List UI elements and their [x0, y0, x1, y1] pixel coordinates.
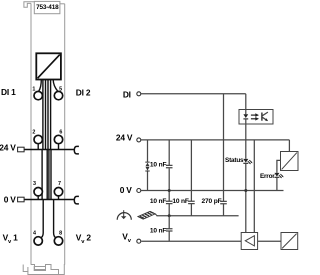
wire to terminal 4: [40, 200, 44, 239]
module body outline right edge: [64, 4, 66, 265]
status wire from optocoupler: [245, 124, 247, 159]
wire TVS column: [147, 140, 149, 191]
DIN rail line: [28, 272, 59, 275]
LED Error: [274, 173, 283, 178]
node FE junction: [168, 214, 171, 217]
svg-text:10 nF: 10 nF: [150, 227, 167, 234]
capacitor C5 column Vv to FE: [168, 216, 170, 241]
terminal 8 circle: [54, 237, 62, 245]
module body outline left edge: [30, 3, 32, 264]
optocoupler light arrows: [251, 113, 259, 120]
svg-text:1: 1: [32, 87, 35, 93]
24V rail drop to DC/DC: [288, 140, 290, 152]
wire to terminal 8: [54, 200, 57, 239]
capacitor C3 column from 24V: [190, 140, 192, 216]
amplifier box A1: [241, 233, 257, 250]
capacitor C1 10nF plates: [166, 165, 173, 167]
0V terminal circle: [137, 189, 141, 193]
svg-text:24 V: 24 V: [116, 133, 133, 143]
svg-text:6: 6: [59, 129, 62, 135]
svg-text:10 nF: 10 nF: [172, 198, 189, 205]
optocoupler LED: [243, 110, 248, 125]
wire capacitor C1 column upper: [168, 140, 170, 191]
optocoupler U1 box: [239, 110, 273, 125]
module top right edge line: [60, 3, 65, 5]
svg-text:10 nF: 10 nF: [150, 161, 167, 168]
node status-0V junction: [244, 189, 247, 192]
stub terminal 7: [58, 196, 60, 200]
terminal 7 circle: [54, 188, 62, 196]
svg-text:Status: Status: [225, 157, 244, 164]
24V rail left: [24, 149, 74, 151]
wire internal bus d: [50, 80, 52, 200]
wire 270pF column from DI: [223, 94, 225, 202]
wire internal bus b: [46, 80, 48, 200]
svg-text:DI 1: DI 1: [1, 87, 16, 97]
antenna earth symbol: [117, 210, 131, 220]
svg-text:DI 2: DI 2: [76, 87, 91, 97]
DC/DC converter box bottom: [281, 233, 298, 250]
Vv terminal circle: [137, 239, 141, 243]
svg-text:DI: DI: [123, 89, 131, 99]
24V clamp fork symbol: [74, 146, 79, 154]
svg-text:3: 3: [33, 181, 36, 187]
svg-text:5: 5: [59, 87, 62, 93]
status wire to 0V and amplifier: [245, 164, 247, 233]
wire internal bus a: [41, 80, 44, 200]
DI wire: [141, 93, 246, 95]
Vv rail: [141, 240, 241, 242]
svg-text:270 pF: 270 pF: [202, 198, 222, 205]
LED Status: [243, 159, 252, 164]
label box 753-418: [34, 1, 60, 13]
suppressor diode D1: [145, 162, 149, 171]
terminal 1 circle: [34, 91, 42, 99]
24V terminal circle: [137, 138, 141, 142]
node 0V-C2 junction: [168, 189, 171, 192]
functional earth line: [157, 215, 239, 217]
0V rail left: [24, 199, 74, 201]
error tap wire: [277, 160, 281, 173]
terminal 6 circle: [54, 135, 62, 143]
24V wire-entry square symbol: [18, 147, 25, 152]
terminal 5 circle: [54, 91, 62, 99]
wire 270pF column lower: [223, 204, 225, 216]
svg-text:7: 7: [58, 181, 61, 187]
0V wire-entry square symbol: [18, 197, 25, 202]
svg-text:Error: Error: [260, 173, 275, 180]
stub terminal 2: [37, 144, 39, 150]
module bottom foot profile: [31, 265, 65, 275]
wire leg to terminal 5: [53, 80, 58, 92]
wire 24V to amplifier: [253, 140, 255, 233]
DIN rail cross-section: [34, 267, 45, 271]
wire internal bus c: [47, 80, 50, 200]
wire amplifier to DC/DC bottom: [258, 240, 281, 242]
error wire to 0V: [276, 178, 278, 191]
svg-text:8: 8: [59, 231, 62, 237]
capacitor C2 10nF plates: [166, 201, 173, 203]
DC/DC converter box top: [281, 152, 299, 171]
svg-text:2: 2: [32, 129, 35, 135]
capacitor C4 270pF plates: [220, 201, 227, 203]
0V clamp fork symbol: [74, 196, 79, 204]
terminal 3 circle: [34, 188, 42, 196]
24V rail: [141, 139, 290, 141]
capacitor C3 10nF plates: [188, 201, 195, 203]
DIN rail hook: [23, 265, 28, 272]
svg-text:24 V: 24 V: [0, 143, 16, 153]
DI terminal circle: [137, 92, 141, 96]
stub terminal 3: [37, 196, 39, 200]
capacitor C2 column below 0V: [168, 191, 170, 216]
stub terminal 6: [58, 144, 60, 150]
svg-text:0 V: 0 V: [120, 185, 133, 195]
svg-text:0 V: 0 V: [4, 194, 17, 204]
svg-text:4: 4: [33, 231, 36, 237]
display box U0 (electronics): [36, 53, 61, 79]
DI wire drop to optocoupler: [245, 94, 247, 110]
shield/earth comb symbol: [138, 211, 157, 219]
terminal 2 circle: [34, 135, 42, 143]
module top latch notch: [24, 2, 34, 8]
terminal 4 circle: [34, 237, 42, 245]
svg-text:753-418: 753-418: [36, 4, 59, 11]
0V rail: [141, 190, 284, 192]
wire leg to terminal 1: [39, 80, 42, 92]
capacitor C5 10nF plates: [166, 229, 173, 231]
optocoupler phototransistor: [262, 112, 268, 121]
svg-text:10 nF: 10 nF: [150, 198, 167, 205]
